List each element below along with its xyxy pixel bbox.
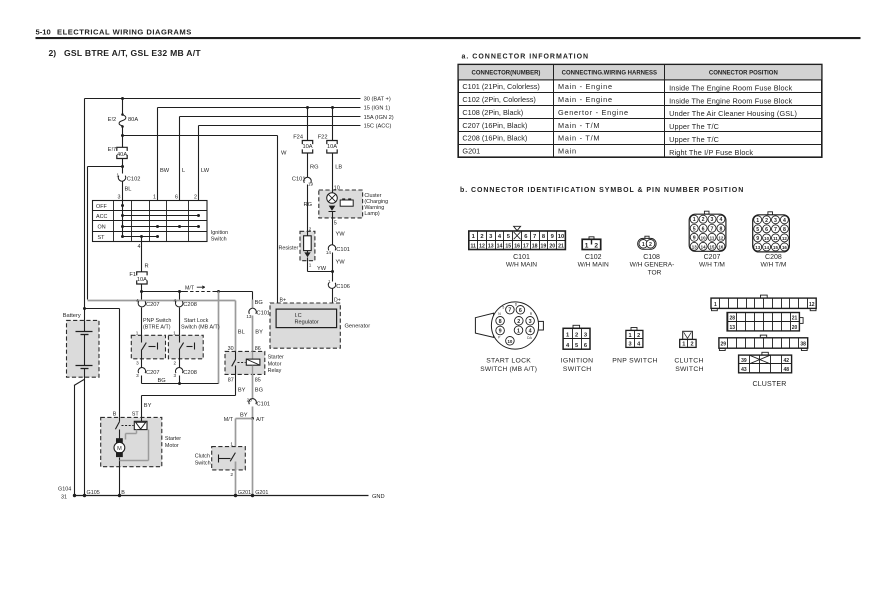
wire R ignition pin 4 to fuse F1 — [138, 237, 149, 272]
svg-text:12: 12 — [809, 302, 815, 308]
svg-text:W/H GENERA-: W/H GENERA- — [630, 262, 675, 269]
wire L ignition pin 6 — [180, 117, 186, 201]
svg-text:5: 5 — [693, 226, 696, 232]
svg-text:Motor: Motor — [165, 443, 179, 449]
svg-text:8: 8 — [499, 319, 502, 325]
resistor box — [279, 226, 315, 271]
svg-text:W/H MAIN: W/H MAIN — [578, 262, 609, 269]
svg-text:87: 87 — [228, 377, 234, 383]
svg-text:BY: BY — [255, 330, 263, 336]
node A/T M/T junction — [224, 413, 265, 423]
svg-text:21: 21 — [792, 316, 798, 322]
svg-text:C207 (16Pin, Black): C207 (16Pin, Black) — [462, 121, 527, 130]
svg-text:1: 1 — [629, 333, 632, 339]
svg-text:Starter: Starter — [268, 355, 284, 361]
battery icon in cluster — [340, 198, 353, 206]
svg-text:M/T: M/T — [185, 285, 195, 291]
svg-text:b. CONNECTOR IDENTIFICATION SY: b. CONNECTOR IDENTIFICATION SYMBOL & PIN… — [460, 187, 744, 194]
wire W charging feed to generator — [123, 136, 288, 304]
svg-text:1: 1 — [309, 263, 312, 268]
svg-text:16: 16 — [718, 244, 723, 249]
svg-text:BL: BL — [238, 330, 245, 336]
svg-text:ACC: ACC — [96, 214, 107, 220]
wire 15A IGN2 rail — [180, 115, 394, 121]
ground G201 relay — [251, 490, 269, 497]
svg-text:C207: C207 — [704, 254, 721, 261]
svg-text:11: 11 — [710, 235, 715, 240]
svg-text:15C (ACC): 15C (ACC) — [364, 124, 392, 130]
svg-text:Regulator: Regulator — [295, 319, 319, 325]
svg-text:80A: 80A — [128, 117, 138, 123]
ignition switch label — [211, 230, 228, 243]
svg-text:C101: C101 — [513, 254, 530, 261]
svg-text:W: W — [281, 151, 287, 157]
wire LW ignition pin 2 — [199, 126, 210, 201]
wire battery negative to G104 — [74, 378, 85, 496]
connector C207 pin 3 — [136, 359, 159, 384]
svg-text:DA: DA — [527, 336, 532, 340]
svg-text:BL: BL — [125, 186, 132, 192]
cluster connector strip 13-28 — [727, 313, 803, 331]
svg-text:2: 2 — [594, 242, 598, 249]
connector symbol clutch switch — [674, 331, 703, 373]
cluster connector strip 29-38 — [719, 335, 808, 350]
svg-text:5: 5 — [502, 305, 504, 309]
svg-text:C102: C102 — [585, 254, 602, 261]
svg-text:YW: YW — [317, 266, 327, 272]
wire gray drop to switch common — [218, 292, 220, 384]
svg-text:48: 48 — [784, 367, 790, 373]
starter motor relay box — [225, 346, 284, 383]
svg-text:13: 13 — [755, 245, 760, 250]
svg-text:13: 13 — [488, 243, 494, 249]
svg-text:1: 1 — [173, 330, 176, 335]
svg-text:8: 8 — [719, 226, 722, 232]
svg-text:Motor: Motor — [268, 361, 282, 367]
svg-text:RG: RG — [310, 164, 319, 170]
svg-text:SWITCH (MB A/T): SWITCH (MB A/T) — [480, 366, 537, 373]
svg-text:LB: LB — [335, 164, 342, 170]
connector symbol C207 — [689, 211, 726, 268]
svg-text:A/T: A/T — [256, 417, 265, 423]
svg-text:15 (IGN 1): 15 (IGN 1) — [364, 106, 391, 112]
svg-text:BY: BY — [144, 403, 152, 409]
svg-text:10A: 10A — [137, 277, 147, 283]
svg-text:Upper The T/C: Upper The T/C — [669, 122, 719, 131]
svg-text:Relay: Relay — [268, 368, 282, 374]
svg-text:12: 12 — [479, 243, 485, 249]
svg-text:42: 42 — [784, 358, 790, 364]
svg-text:Switch (MB A/T): Switch (MB A/T) — [181, 325, 220, 331]
connector C208 pin 4 — [173, 292, 196, 336]
svg-text:5: 5 — [334, 221, 337, 227]
svg-text:G201: G201 — [462, 147, 480, 156]
svg-text:85: 85 — [255, 377, 261, 383]
svg-text:2: 2 — [194, 194, 197, 200]
svg-text:13: 13 — [692, 244, 697, 249]
svg-text:Main - T/M: Main - T/M — [558, 121, 600, 130]
svg-text:15: 15 — [505, 243, 511, 249]
svg-text:F24: F24 — [293, 135, 303, 141]
svg-text:BG: BG — [255, 300, 263, 306]
svg-text:G105: G105 — [87, 490, 100, 496]
connector symbol start lock switch — [475, 302, 543, 373]
wire BW ignition pin 1 — [158, 108, 170, 201]
svg-text:1: 1 — [693, 217, 696, 223]
svg-text:Inside The Engine Room Fuse Bl: Inside The Engine Room Fuse Block — [669, 83, 792, 92]
svg-text:3: 3 — [118, 194, 121, 200]
svg-text:9: 9 — [756, 236, 759, 242]
svg-text:1: 1 — [585, 242, 589, 249]
fuse F22 10A — [318, 135, 343, 191]
label BL BY above relay — [238, 330, 263, 336]
svg-text:C208: C208 — [183, 370, 197, 376]
ground G105 — [83, 490, 100, 497]
svg-text:Switch: Switch — [211, 237, 227, 243]
svg-text:Starter: Starter — [165, 436, 181, 442]
ground G201 clutch — [234, 490, 251, 497]
svg-text:Switch: Switch — [195, 460, 211, 466]
svg-text:13: 13 — [246, 314, 252, 319]
svg-text:12: 12 — [782, 236, 787, 241]
connector information table — [458, 65, 822, 158]
ground G104 — [58, 487, 76, 501]
svg-text:C208 (16Pin, Black): C208 (16Pin, Black) — [462, 134, 527, 143]
connector C101 pin 14 — [326, 245, 350, 272]
svg-text:Upper The T/C: Upper The T/C — [669, 135, 719, 144]
svg-text:2): 2) — [49, 48, 57, 58]
svg-text:CLUSTER: CLUSTER — [752, 381, 786, 388]
svg-text:Clutch: Clutch — [195, 454, 210, 460]
svg-text:3: 3 — [774, 218, 777, 224]
svg-text:(BTRE A/T): (BTRE A/T) — [143, 325, 171, 331]
svg-text:6: 6 — [519, 308, 522, 314]
svg-text:W/H T/M: W/H T/M — [760, 262, 786, 269]
svg-text:START LOCK: START LOCK — [486, 357, 531, 364]
svg-text:R: R — [145, 264, 149, 270]
clutch switch contact — [219, 453, 236, 496]
charge indicator diode symbol — [329, 206, 336, 218]
svg-text:C102: C102 — [127, 177, 141, 183]
svg-text:20: 20 — [549, 243, 555, 249]
svg-text:7: 7 — [711, 226, 714, 232]
svg-text:Start Lock: Start Lock — [184, 318, 209, 324]
svg-text:ST: ST — [132, 412, 140, 418]
svg-text:SWITCH: SWITCH — [675, 366, 704, 373]
svg-text:3: 3 — [136, 373, 139, 378]
svg-text:BY: BY — [238, 387, 246, 393]
svg-text:PNP SWITCH: PNP SWITCH — [612, 357, 658, 364]
starter solenoid — [134, 418, 147, 430]
svg-text:6: 6 — [175, 194, 178, 200]
svg-text:4: 4 — [719, 217, 722, 223]
svg-text:Genertor - Engine: Genertor - Engine — [558, 108, 629, 117]
svg-text:16: 16 — [514, 243, 520, 249]
label M/T arrow — [185, 285, 205, 291]
svg-text:10A: 10A — [327, 144, 337, 150]
svg-text:3: 3 — [136, 360, 139, 365]
svg-text:F22: F22 — [318, 135, 328, 141]
cluster connector strip 1-12 — [711, 295, 816, 311]
svg-text:21: 21 — [558, 243, 564, 249]
svg-text:11: 11 — [470, 243, 476, 249]
svg-text:14: 14 — [497, 243, 503, 249]
header rule — [36, 37, 861, 39]
svg-text:Ignition: Ignition — [211, 230, 228, 236]
svg-text:8: 8 — [783, 227, 786, 233]
svg-text:7: 7 — [533, 234, 536, 240]
svg-text:29: 29 — [721, 342, 727, 348]
svg-text:G201: G201 — [238, 490, 251, 496]
wire starter ground B — [120, 467, 126, 496]
svg-text:C106: C106 — [336, 284, 350, 290]
wire battery positive feed — [85, 97, 125, 321]
svg-text:9: 9 — [499, 329, 502, 335]
starter internal gray link — [120, 430, 149, 461]
svg-text:10: 10 — [507, 339, 512, 344]
svg-text:PNP Switch: PNP Switch — [143, 318, 171, 324]
svg-text:CONNECTING.WIRING HARNESS: CONNECTING.WIRING HARNESS — [562, 71, 657, 77]
svg-text:3: 3 — [711, 217, 714, 223]
svg-text:2: 2 — [480, 234, 483, 240]
svg-text:2: 2 — [637, 333, 640, 339]
svg-text:Main - T/M: Main - T/M — [558, 134, 600, 143]
connector C208 pin 3 — [173, 359, 196, 384]
svg-text:1: 1 — [756, 218, 759, 224]
svg-text:a. CONNECTOR INFORMATION: a. CONNECTOR INFORMATION — [462, 54, 590, 61]
svg-text:1: 1 — [116, 172, 119, 177]
svg-text:20: 20 — [792, 325, 798, 331]
connector C101 pin 20 — [247, 397, 270, 418]
svg-text:B: B — [113, 412, 117, 418]
relay coil 86-85 — [246, 352, 260, 375]
svg-text:1: 1 — [714, 302, 717, 308]
connector C102 pin 1 — [116, 172, 140, 182]
battery box — [63, 313, 99, 377]
svg-text:2: 2 — [575, 333, 578, 339]
svg-text:7: 7 — [508, 308, 511, 314]
svg-text:OFF: OFF — [96, 204, 107, 210]
svg-text:C208: C208 — [765, 254, 782, 261]
svg-text:30 (BAT +): 30 (BAT +) — [364, 97, 391, 103]
svg-text:GSL BTRE A/T, GSL E32 MB A/T: GSL BTRE A/T, GSL E32 MB A/T — [64, 48, 201, 58]
svg-text:2: 2 — [173, 360, 176, 365]
svg-text:Generator: Generator — [345, 324, 371, 330]
wire YW resistor join — [308, 266, 335, 273]
clutch switch box — [195, 442, 246, 470]
svg-text:10A: 10A — [302, 144, 312, 150]
svg-text:IGNITION: IGNITION — [561, 357, 594, 364]
svg-text:1: 1 — [136, 330, 139, 335]
svg-text:2: 2 — [230, 472, 233, 478]
connector symbol C102 — [578, 237, 609, 269]
sub heading 2) GSL BTRE A/T, GSL E32 MB A/T — [49, 48, 202, 58]
svg-text:1: 1 — [328, 279, 331, 284]
svg-text:G104: G104 — [58, 487, 71, 493]
svg-text:14: 14 — [764, 245, 769, 250]
svg-text:Main - Engine: Main - Engine — [558, 95, 613, 104]
svg-text:2: 2 — [702, 217, 705, 223]
wire RG F24 branch — [306, 106, 309, 141]
page header text 5-10 ELECTRICAL WIRING DIAGRAMS — [36, 27, 192, 36]
ignition switch pin numbers 3 1 6 2 — [118, 194, 198, 200]
ignition switch grid — [93, 201, 208, 242]
svg-text:15A (IGN 2): 15A (IGN 2) — [364, 115, 394, 121]
svg-text:W/H T/M: W/H T/M — [699, 262, 725, 269]
svg-text:10: 10 — [764, 236, 769, 241]
connector C207 pin 4 — [136, 292, 159, 336]
svg-text:5: 5 — [756, 227, 759, 233]
svg-text:Right The I/P Fuse Block: Right The I/P Fuse Block — [669, 148, 753, 157]
svg-text:4: 4 — [136, 298, 139, 303]
svg-text:39: 39 — [741, 358, 747, 364]
svg-text:E!7: E!7 — [108, 147, 117, 153]
svg-text:CONNECTOR(NUMBER): CONNECTOR(NUMBER) — [472, 71, 541, 77]
relay contact 30-87 — [232, 352, 246, 375]
wire LB F22 branch — [331, 106, 334, 141]
svg-text:4: 4 — [783, 218, 786, 224]
svg-text:12: 12 — [718, 235, 723, 240]
wire relay 87 to starter ST — [142, 375, 246, 418]
svg-text:Resister: Resister — [279, 245, 299, 251]
svg-text:3: 3 — [629, 342, 632, 348]
svg-text:BG: BG — [158, 378, 166, 384]
svg-text:18: 18 — [532, 243, 538, 249]
svg-text:7: 7 — [774, 227, 777, 233]
wire relay 85 BG to C101 pin 20 — [253, 375, 264, 399]
svg-text:CLUTCH: CLUTCH — [674, 357, 703, 364]
svg-text:YW: YW — [336, 260, 346, 266]
wire M/T branch to clutch switch — [236, 419, 253, 450]
fuse F24 10A — [293, 135, 318, 178]
wire BG to C101 pin 13 — [255, 300, 263, 306]
svg-text:C108: C108 — [643, 254, 660, 261]
node EF7 output junction — [121, 165, 124, 168]
svg-text:6: 6 — [702, 226, 705, 232]
ignition switch contacts — [121, 201, 200, 239]
svg-text:1: 1 — [642, 242, 645, 248]
lamp symbol — [327, 191, 338, 204]
svg-text:19: 19 — [308, 182, 314, 187]
svg-text:C101: C101 — [336, 247, 350, 253]
svg-text:2: 2 — [309, 226, 312, 231]
connector symbol PNP switch — [612, 328, 658, 365]
connector symbol C108 — [630, 236, 675, 276]
starter motor M — [114, 430, 125, 467]
wire BL to ignition switch pin 3 — [123, 182, 132, 201]
svg-text:Main: Main — [558, 147, 577, 156]
svg-text:13: 13 — [730, 325, 736, 331]
svg-text:C207: C207 — [146, 302, 160, 308]
wire BG switch common rail — [142, 378, 219, 385]
svg-text:3: 3 — [173, 373, 176, 378]
svg-text:1: 1 — [153, 194, 156, 200]
fuse F1 10A — [129, 272, 147, 292]
wire battery to G105 — [84, 380, 86, 496]
svg-text:Inside The Engine Room Fuse Bl: Inside The Engine Room Fuse Block — [669, 96, 792, 105]
svg-text:C101: C101 — [257, 310, 271, 316]
svg-text:Main - Engine: Main - Engine — [558, 82, 613, 91]
node junction C207 feed — [140, 290, 143, 293]
fuse EF7 40A — [108, 136, 128, 174]
svg-text:C208: C208 — [183, 302, 197, 308]
svg-text:C207: C207 — [146, 370, 160, 376]
svg-text:28: 28 — [730, 316, 736, 322]
svg-text:2: 2 — [649, 242, 652, 248]
svg-text:11: 11 — [773, 236, 778, 241]
wire A/T to G201 — [252, 419, 254, 496]
wire YW cluster pin 5 to C101 pin 14 — [333, 218, 346, 245]
svg-text:4: 4 — [529, 329, 532, 335]
svg-text:17: 17 — [523, 243, 529, 249]
starter contact from B — [115, 418, 133, 430]
generator box — [270, 298, 370, 349]
svg-text:14: 14 — [701, 244, 706, 249]
wire 15 IGN1 rail — [158, 106, 391, 112]
svg-text:Lamp): Lamp) — [364, 211, 379, 217]
fuse EF2 80A — [108, 99, 139, 136]
svg-text:3: 3 — [529, 319, 532, 325]
svg-text:2: 2 — [517, 319, 520, 325]
start lock switch contact — [179, 336, 194, 359]
svg-text:C102 (2Pin, Colorless): C102 (2Pin, Colorless) — [462, 95, 535, 104]
svg-text:GND: GND — [372, 494, 385, 500]
svg-text:BW: BW — [160, 168, 170, 174]
node junction M/T gray drop — [217, 290, 220, 293]
connector symbol C101 — [469, 226, 566, 268]
node EF2 output junction — [121, 134, 124, 137]
svg-text:43: 43 — [741, 367, 747, 373]
svg-text:4: 4 — [138, 244, 141, 250]
connector C101 pin 13 — [246, 300, 270, 352]
svg-text:TOR: TOR — [648, 270, 662, 277]
svg-text:19: 19 — [541, 243, 547, 249]
svg-text:14: 14 — [326, 250, 332, 255]
svg-text:C108 (2Pin, Black): C108 (2Pin, Black) — [462, 108, 523, 117]
svg-text:C101: C101 — [257, 402, 271, 408]
svg-text:10: 10 — [558, 234, 564, 240]
svg-text:2: 2 — [765, 218, 768, 224]
starter motor box — [101, 412, 182, 467]
start lock switch box — [168, 318, 219, 359]
connector C106 pin 1 — [328, 272, 350, 304]
wire main feed line to switches — [142, 292, 253, 300]
svg-text:5-10: 5-10 — [36, 27, 51, 36]
svg-text:ELECTRICAL WIRING DIAGRAMS: ELECTRICAL WIRING DIAGRAMS — [57, 27, 192, 36]
svg-text:2: 2 — [690, 342, 693, 348]
svg-text:F1: F1 — [129, 272, 136, 278]
svg-text:6: 6 — [765, 227, 768, 233]
svg-text:15: 15 — [773, 245, 778, 250]
svg-text:40A: 40A — [117, 152, 127, 158]
svg-text:L: L — [182, 168, 185, 174]
svg-text:E!2: E!2 — [108, 117, 117, 123]
wire 15C ACC rail — [199, 124, 392, 130]
svg-text:M/T: M/T — [224, 417, 234, 423]
svg-text:RG: RG — [304, 202, 313, 208]
svg-text:G201: G201 — [255, 490, 268, 496]
svg-text:20: 20 — [247, 397, 253, 402]
svg-text:9: 9 — [693, 235, 696, 241]
svg-text:ST: ST — [98, 235, 106, 241]
connector symbol ignition switch — [561, 325, 594, 373]
svg-text:Battery: Battery — [63, 313, 81, 319]
wire 30 BAT+ rail — [85, 97, 391, 103]
svg-text:Under The Air Cleaner Housing: Under The Air Cleaner Housing (GSL) — [669, 109, 797, 118]
svg-text:ON: ON — [98, 225, 106, 231]
svg-text:C101 (21Pin, Colorless): C101 (21Pin, Colorless) — [462, 82, 539, 91]
svg-text:M: M — [117, 446, 122, 452]
